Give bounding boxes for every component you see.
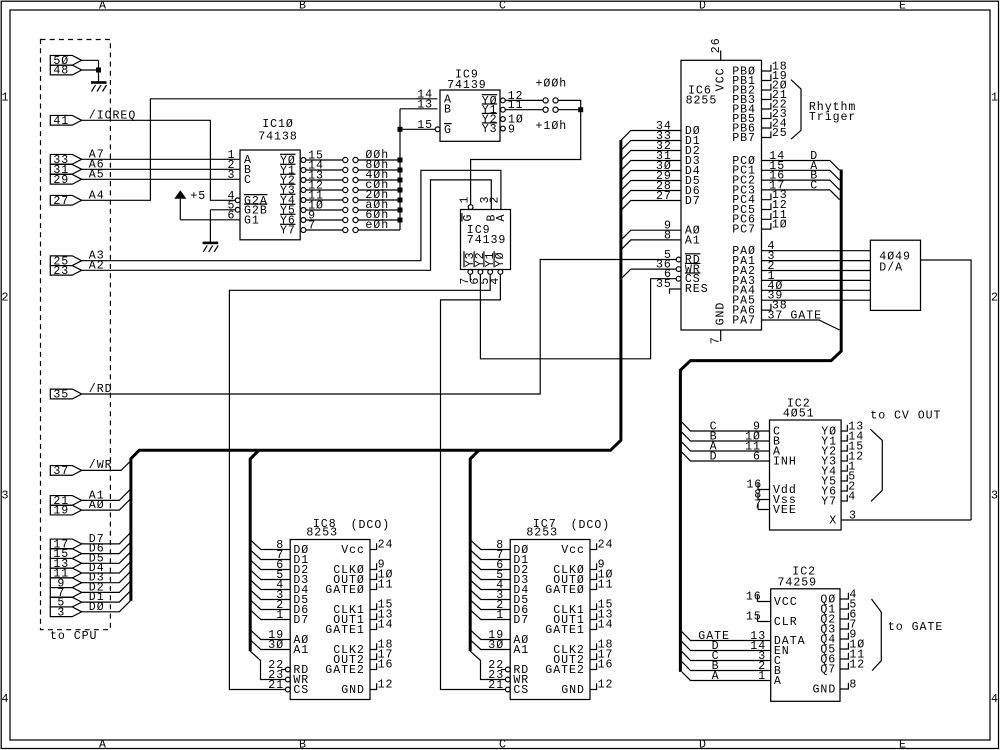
wire A7 xyxy=(82,158,240,160)
A row xyxy=(682,442,770,451)
svg-text:9: 9 xyxy=(508,123,516,136)
svg-text:74139: 74139 xyxy=(467,234,507,247)
svg-text:VEE: VEE xyxy=(773,504,797,517)
svg-text:Q7: Q7 xyxy=(820,664,836,677)
wire A0 into bus xyxy=(82,499,131,511)
bubble Y1 pin11 xyxy=(501,107,506,112)
Y2 output row 40h xyxy=(301,178,306,183)
connector pin 13 xyxy=(50,558,81,568)
wire G input xyxy=(400,128,435,130)
bubble Y0 pin12 xyxy=(501,98,506,103)
svg-text:A1: A1 xyxy=(685,234,701,247)
wire A4 to 74139 A input xyxy=(82,99,438,201)
svg-text:3: 3 xyxy=(57,606,65,619)
8255 peripheral thick bus xyxy=(680,170,841,672)
wire D5 into bus xyxy=(82,552,131,564)
wire /RD to 8255 RD xyxy=(82,260,677,395)
svg-text:8253: 8253 xyxy=(306,527,338,540)
bubble G2B pin5 xyxy=(235,207,240,212)
svg-text:to CPU: to CPU xyxy=(50,630,97,643)
wire 4049 output xyxy=(921,260,972,520)
wire /IOREQ xyxy=(82,120,236,200)
svg-text:2: 2 xyxy=(2,292,10,305)
decoder IC10 74138 xyxy=(240,150,300,240)
svg-text:C: C xyxy=(810,179,818,192)
svg-text:RES: RES xyxy=(685,283,709,296)
svg-text:14: 14 xyxy=(378,619,394,632)
connector pin 31 xyxy=(50,164,81,174)
junction squares on select line xyxy=(398,127,403,132)
svg-text:74138: 74138 xyxy=(258,131,298,144)
svg-text:A: A xyxy=(712,670,720,683)
svg-text:27: 27 xyxy=(53,195,69,208)
svg-text:16: 16 xyxy=(746,591,762,604)
svg-text:+ØØh: +ØØh xyxy=(536,77,568,90)
Y0 output row 00h xyxy=(301,158,306,163)
connector pin 25 xyxy=(50,256,81,266)
EN row D xyxy=(682,642,771,651)
ppi IC6 8255 xyxy=(681,60,762,330)
svg-text:GATE1: GATE1 xyxy=(545,624,585,637)
pin 7 wire xyxy=(720,330,722,341)
jumper row +00h xyxy=(505,100,580,109)
svg-text:Y7: Y7 xyxy=(821,496,837,509)
connector pin 33 xyxy=(50,154,81,164)
connector pin 23 xyxy=(50,266,81,276)
Y1 output row 80h xyxy=(301,168,306,173)
bubble Y3 pin9 xyxy=(501,126,506,131)
svg-text:GATEØ: GATEØ xyxy=(325,584,365,597)
Y4 output row 20h xyxy=(301,198,306,203)
wire select line to 74139b G xyxy=(471,110,581,205)
timer IC8 8253 DCO xyxy=(290,540,370,700)
dashed box to CPU xyxy=(41,40,111,630)
connector pin 27 xyxy=(50,195,81,205)
svg-text:GATE2: GATE2 xyxy=(325,664,365,677)
wire D4 into bus xyxy=(82,561,131,573)
junction square xyxy=(578,107,583,112)
bubble Y2 pin6 bottom xyxy=(478,270,483,275)
svg-text:Y3: Y3 xyxy=(482,123,498,136)
wire D6 into bus xyxy=(82,542,131,554)
wire /WR into bus xyxy=(82,461,131,471)
wire G2B to ground xyxy=(210,210,235,243)
svg-text:VCC: VCC xyxy=(774,596,798,609)
connector pin 11 xyxy=(50,568,81,578)
svg-text:YØ: YØ xyxy=(494,251,507,267)
C row xyxy=(682,652,771,661)
svg-text:14: 14 xyxy=(598,619,614,632)
jumper select vertical line xyxy=(399,109,401,230)
svg-text:GND: GND xyxy=(714,302,727,326)
svg-text:3: 3 xyxy=(228,169,236,182)
svg-text:2: 2 xyxy=(991,292,999,305)
svg-text:to GATE: to GATE xyxy=(888,621,943,634)
svg-text:D7: D7 xyxy=(685,195,701,208)
CPU thick bus xyxy=(131,140,621,601)
wire D1 into bus xyxy=(82,591,131,603)
wire D2 into bus xyxy=(82,581,131,593)
svg-text:3: 3 xyxy=(991,490,999,503)
connector pin 21 xyxy=(50,496,81,506)
svg-text:1: 1 xyxy=(758,670,766,683)
svg-text:(DCO): (DCO) xyxy=(351,519,391,532)
A row xyxy=(682,672,771,681)
svg-text:2: 2 xyxy=(489,196,502,204)
svg-text:(DCO): (DCO) xyxy=(571,519,611,532)
+5 symbol xyxy=(174,190,186,199)
svg-text:CLR: CLR xyxy=(774,616,798,629)
svg-text:35: 35 xyxy=(53,389,69,402)
svg-text:1: 1 xyxy=(991,91,999,104)
svg-text:E: E xyxy=(899,739,907,750)
svg-text:X: X xyxy=(829,515,837,528)
decoder IC9 74139 first half xyxy=(440,90,500,141)
svg-text:21: 21 xyxy=(268,679,284,692)
VCC row xyxy=(758,595,771,601)
svg-text:C: C xyxy=(244,174,252,187)
connector pin 3 xyxy=(50,607,81,617)
svg-text:A: A xyxy=(99,739,107,750)
connector pin 15 xyxy=(50,549,81,559)
svg-text:7: 7 xyxy=(710,336,723,344)
svg-text:6: 6 xyxy=(753,451,761,464)
svg-text:IC1Ø: IC1Ø xyxy=(262,118,294,131)
svg-text:GATE2: GATE2 xyxy=(545,664,585,677)
svg-text:VCC: VCC xyxy=(714,67,727,91)
svg-text:8253: 8253 xyxy=(526,527,558,540)
svg-text:3: 3 xyxy=(2,490,10,503)
svg-text:E: E xyxy=(899,0,907,12)
svg-text:1: 1 xyxy=(2,91,10,104)
PB brace xyxy=(791,80,801,140)
svg-text:8255: 8255 xyxy=(686,94,718,107)
svg-text:11: 11 xyxy=(378,579,394,592)
svg-text:A1: A1 xyxy=(293,644,309,657)
wire A3 to 74139b pin2 xyxy=(82,170,501,260)
bubble G pin1 top xyxy=(468,205,473,210)
svg-text:7: 7 xyxy=(754,499,762,512)
svg-text:to CV OUT: to CV OUT xyxy=(870,410,941,423)
svg-text:A1: A1 xyxy=(513,644,529,657)
svg-text:74259: 74259 xyxy=(778,577,818,590)
IC7 bus branch xyxy=(470,450,479,651)
svg-text:CS: CS xyxy=(513,684,529,697)
wire D7 into bus xyxy=(82,532,131,544)
svg-text:1: 1 xyxy=(458,196,471,204)
bubble Y1 pin5 bottom xyxy=(488,270,493,275)
svg-text:3: 3 xyxy=(849,510,857,523)
svg-text:25: 25 xyxy=(772,127,788,140)
svg-text:PB7: PB7 xyxy=(732,132,756,145)
svg-text:15: 15 xyxy=(746,611,762,624)
svg-text:D/A: D/A xyxy=(879,261,903,274)
ground symbol xyxy=(91,81,107,84)
connector pin 19 xyxy=(50,505,81,515)
svg-text:37: 37 xyxy=(53,465,69,478)
svg-text:4: 4 xyxy=(991,693,999,706)
svg-text:16: 16 xyxy=(378,659,394,672)
svg-text:D7: D7 xyxy=(293,614,309,627)
svg-text:1Ø: 1Ø xyxy=(772,219,788,232)
svg-text:Vcc: Vcc xyxy=(341,544,365,557)
bubble Y3 pin7 bottom xyxy=(468,270,473,275)
svg-text:PA7: PA7 xyxy=(732,314,756,327)
B row xyxy=(682,662,771,671)
svg-text:Vcc: Vcc xyxy=(561,544,585,557)
svg-text:24: 24 xyxy=(598,539,614,552)
svg-text:GND: GND xyxy=(561,684,585,697)
Y7 output row e0h xyxy=(301,228,306,233)
B row xyxy=(682,432,770,441)
latch IC2 74259 xyxy=(771,589,840,702)
svg-text:29: 29 xyxy=(53,174,69,187)
svg-text:D: D xyxy=(710,451,718,464)
svg-text:24: 24 xyxy=(378,539,394,552)
C row xyxy=(682,422,770,431)
svg-text:GATE1: GATE1 xyxy=(325,624,365,637)
svg-text:21: 21 xyxy=(488,679,504,692)
svg-text:19: 19 xyxy=(53,505,69,518)
svg-text:G: G xyxy=(444,124,452,137)
wire pin48 to node xyxy=(82,69,99,71)
svg-text:GND: GND xyxy=(813,684,837,697)
pin 26 wire xyxy=(720,51,722,61)
jumper row +10h xyxy=(505,109,580,111)
Y5 output row a0h xyxy=(301,208,306,213)
svg-text:D: D xyxy=(699,0,707,12)
svg-text:C: C xyxy=(499,0,507,12)
svg-text:48: 48 xyxy=(53,65,69,78)
mux IC2 4051 xyxy=(770,420,842,530)
INH row xyxy=(682,452,770,461)
CLR row xyxy=(758,615,771,621)
svg-text:12: 12 xyxy=(849,659,865,672)
svg-text:+1Øh: +1Øh xyxy=(536,120,568,133)
wire A5 xyxy=(82,178,240,180)
Y3 output row c0h xyxy=(301,188,306,193)
wire A1 into bus xyxy=(82,489,131,501)
connector pin 29 xyxy=(50,174,81,184)
svg-text:B: B xyxy=(299,0,307,12)
wire Y1 pin5 to IC8 CS xyxy=(229,274,490,689)
svg-text:12: 12 xyxy=(378,679,394,692)
wire G1 xyxy=(180,219,240,221)
svg-text:Y7: Y7 xyxy=(280,225,296,238)
connector pin 41 xyxy=(50,115,81,125)
wire D3 into bus xyxy=(82,571,131,583)
svg-text:D7: D7 xyxy=(513,614,529,627)
svg-text:G: G xyxy=(462,214,475,222)
DATA row GATE xyxy=(682,632,771,641)
junction square xyxy=(96,68,101,73)
stub Y3 pin7 xyxy=(469,274,471,281)
timer IC7 8253 DCO xyxy=(510,540,590,700)
connector pin 35 xyxy=(50,389,81,399)
svg-text:C: C xyxy=(499,739,507,750)
svg-text:4: 4 xyxy=(848,491,856,504)
svg-text:4Ø51: 4Ø51 xyxy=(783,407,815,420)
svg-text:4: 4 xyxy=(2,693,10,706)
bubble Y2 pin10 xyxy=(501,117,506,122)
svg-text:12: 12 xyxy=(598,679,614,692)
IC8 bus branch xyxy=(250,450,259,651)
svg-text:74139: 74139 xyxy=(447,79,487,92)
wire pin50 to node xyxy=(82,59,99,61)
Q brace xyxy=(872,599,882,671)
wire A6 xyxy=(82,168,240,170)
svg-text:PC7: PC7 xyxy=(732,224,756,237)
bubble G pin15 xyxy=(435,127,440,132)
svg-text:Triger: Triger xyxy=(809,111,856,124)
svg-text:CS: CS xyxy=(293,684,309,697)
wire Y0 pin4 to IC7 CS xyxy=(441,274,506,689)
svg-text:GATEØ: GATEØ xyxy=(545,584,585,597)
svg-text:GND: GND xyxy=(341,684,365,697)
decoder IC9 74139 second half rotated xyxy=(461,210,511,270)
bubble G2A pin4 xyxy=(235,198,240,203)
wire B input xyxy=(400,108,438,110)
ground symbol xyxy=(203,242,219,245)
Y6 output row 60h xyxy=(301,218,306,223)
svg-text:B: B xyxy=(299,739,307,750)
svg-text:A: A xyxy=(495,214,508,222)
connector pin 9 xyxy=(50,578,81,588)
connector pin 50 xyxy=(50,55,81,65)
svg-text:INH: INH xyxy=(773,456,797,469)
Vdd row xyxy=(758,483,770,489)
svg-text:A: A xyxy=(99,0,107,12)
dac 4049 D/A xyxy=(870,240,920,310)
svg-text:B: B xyxy=(444,103,452,116)
connector pin 48 xyxy=(50,65,81,75)
svg-text:GATE: GATE xyxy=(790,310,822,323)
svg-text:+5: +5 xyxy=(190,190,206,203)
connector pin 37 xyxy=(50,466,81,476)
svg-text:A: A xyxy=(774,675,782,688)
wire D0 into bus xyxy=(82,600,131,612)
svg-text:23: 23 xyxy=(53,265,69,278)
Vss row xyxy=(758,493,770,499)
wire Y2 pin6 to 8255 CS xyxy=(480,274,676,359)
svg-text:D: D xyxy=(699,739,707,750)
svg-text:16: 16 xyxy=(598,659,614,672)
connector pin 5 xyxy=(50,597,81,607)
svg-text:8: 8 xyxy=(849,679,857,692)
VEE row xyxy=(758,503,770,509)
Y brace xyxy=(870,429,882,501)
svg-text:G1: G1 xyxy=(244,214,260,227)
wire node down to ground xyxy=(98,60,100,82)
svg-text:41: 41 xyxy=(53,115,69,128)
connector pin 17 xyxy=(50,539,81,549)
wire A2 to 74139b pin3 xyxy=(82,180,492,270)
connector pin 7 xyxy=(50,588,81,598)
svg-text:37: 37 xyxy=(768,310,784,323)
svg-text:eØh: eØh xyxy=(365,219,389,232)
svg-text:11: 11 xyxy=(598,579,614,592)
svg-text:26: 26 xyxy=(710,37,723,53)
bubble Y0 pin4 bottom xyxy=(498,270,503,275)
